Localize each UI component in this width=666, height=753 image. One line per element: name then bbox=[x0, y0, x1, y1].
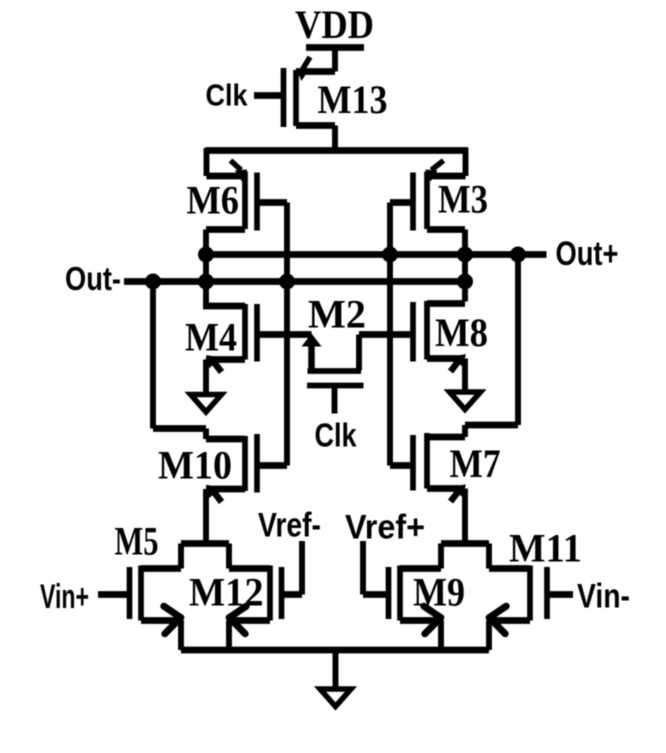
transistor M6 bbox=[206, 148, 257, 231]
transistor M7 bbox=[413, 425, 518, 502]
wire M3 drain to M8 drain (right column) bbox=[462, 230, 468, 302]
wire M3 gate cross-couple down to M7 gate bbox=[387, 203, 393, 466]
ground (M8) bbox=[450, 392, 481, 410]
svg-text:Vref-: Vref- bbox=[258, 507, 321, 545]
transistor M2 bbox=[302, 334, 364, 414]
svg-text:M4: M4 bbox=[185, 315, 237, 360]
ground (main) bbox=[320, 689, 351, 707]
wire M6 gate cross-couple down to M10 gate bbox=[284, 203, 290, 466]
wire M3 gate bbox=[390, 199, 413, 206]
svg-text:Clk: Clk bbox=[315, 417, 358, 454]
wire M8 source to ground bbox=[462, 359, 468, 393]
wire M2 to M8 gate bbox=[359, 331, 413, 338]
wire Out- drop to M10 drain bbox=[150, 282, 156, 429]
svg-text:Vin+: Vin+ bbox=[40, 578, 89, 616]
node rail A / right column bbox=[457, 247, 473, 263]
wire Out+ riser to M7 drain bbox=[515, 255, 521, 426]
wire M6 gate bbox=[257, 199, 287, 206]
wire tail rail bbox=[181, 647, 489, 654]
svg-text:M10: M10 bbox=[158, 443, 232, 488]
wire rail A (Out+ rail) bbox=[204, 251, 547, 258]
wire M5/M12 common drain bridge bbox=[181, 540, 229, 547]
node rail B / cross-couple x287 bbox=[279, 274, 295, 290]
transistor M5 bbox=[130, 566, 182, 634]
wire Clk to M13 gate bbox=[254, 92, 284, 99]
svg-text:Vref+: Vref+ bbox=[345, 509, 425, 547]
svg-text:M13: M13 bbox=[318, 77, 388, 122]
svg-text:M2: M2 bbox=[308, 292, 366, 337]
wire VDD rail bbox=[306, 44, 364, 51]
wire M6 drain to M4 drain (left column) bbox=[203, 230, 209, 307]
wire M5 source to tail rail bbox=[178, 621, 184, 651]
node rail B / left column bbox=[198, 274, 214, 290]
svg-text:M3: M3 bbox=[438, 177, 488, 222]
wire M10 gate bbox=[257, 462, 287, 469]
wire M4 source to ground bbox=[203, 360, 209, 395]
transistor M9 bbox=[389, 566, 442, 634]
wire M11 source to tail rail bbox=[486, 621, 492, 651]
svg-text:M5: M5 bbox=[115, 519, 159, 564]
node rail B / Out- drop bbox=[145, 274, 161, 290]
wire M13 drain to top rail bbox=[332, 126, 338, 154]
transistor M4 bbox=[203, 304, 257, 372]
wire rail B (Out- rail) bbox=[124, 278, 465, 285]
wire M9 source to tail rail bbox=[438, 621, 444, 651]
wire M9/M11 common drain bridge bbox=[441, 540, 489, 547]
svg-text:M6: M6 bbox=[187, 178, 240, 223]
node rail A / cross-couple x390 bbox=[382, 247, 398, 263]
node rail A / M7 drain riser bbox=[510, 247, 526, 263]
node rail B / right column bbox=[457, 274, 473, 290]
wire M4 gate to M2 bbox=[257, 331, 312, 338]
wire M12 gate to Vref- bbox=[282, 591, 303, 598]
svg-text:Out-: Out- bbox=[65, 260, 121, 297]
svg-text:M9: M9 bbox=[413, 570, 465, 615]
wire Vin+ to M5 gate bbox=[98, 591, 130, 598]
svg-text:M7: M7 bbox=[450, 441, 501, 486]
wire tail rail to ground bbox=[333, 650, 339, 689]
wire M12 source to tail rail bbox=[226, 621, 232, 651]
wire VDD to M13 source bbox=[332, 45, 338, 72]
transistor M12 bbox=[229, 566, 282, 634]
svg-text:VDD: VDD bbox=[295, 2, 374, 47]
wire top rail M6-M3 bbox=[206, 147, 469, 154]
svg-text:Out+: Out+ bbox=[556, 235, 619, 273]
svg-text:M11: M11 bbox=[509, 526, 582, 571]
node rail A / left column bbox=[198, 247, 214, 263]
wire Vin- to M11 gate bbox=[547, 591, 573, 598]
transistor M11 bbox=[489, 566, 547, 634]
ground (M4) bbox=[191, 395, 222, 413]
transistor M10 bbox=[153, 429, 257, 503]
transistor M13 bbox=[284, 57, 336, 127]
transistor M8 bbox=[413, 301, 466, 372]
wire M9 gate to Vref+ bbox=[363, 591, 389, 598]
transistor M3 bbox=[413, 148, 466, 231]
wire M10 source down to M5/M12 pair bbox=[203, 489, 209, 544]
wire M7 gate bbox=[390, 462, 413, 469]
svg-text:M12: M12 bbox=[189, 570, 264, 615]
svg-text:M8: M8 bbox=[435, 310, 488, 355]
svg-text:Vin-: Vin- bbox=[577, 578, 630, 616]
svg-text:Clk: Clk bbox=[206, 78, 249, 113]
wire M7 source down to M9/M11 pair bbox=[462, 489, 468, 544]
